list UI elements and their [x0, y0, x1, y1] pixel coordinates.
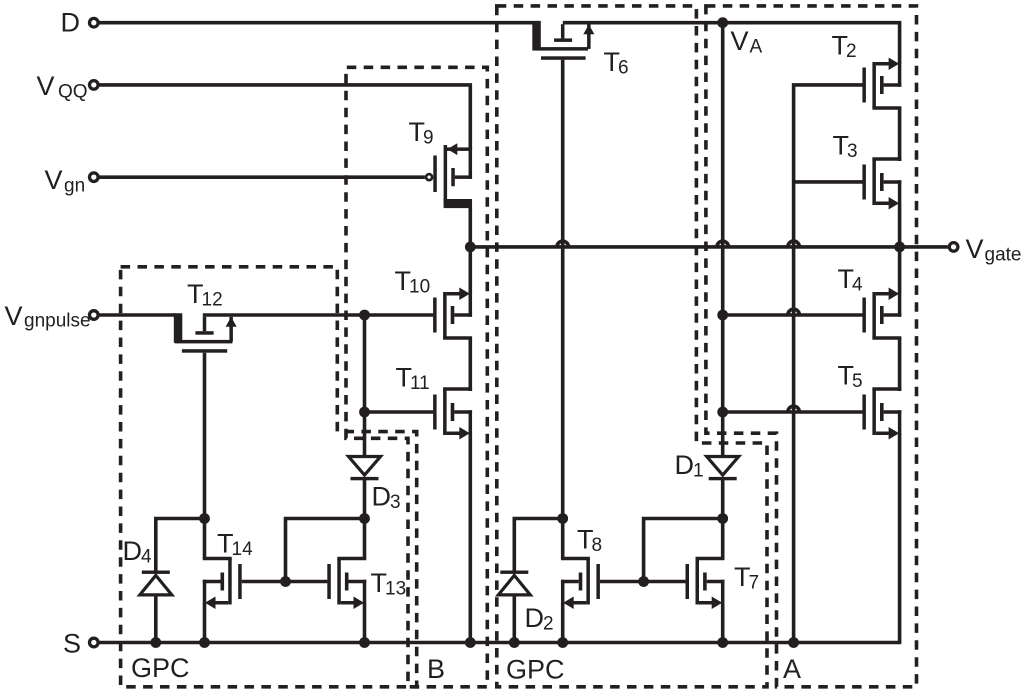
junction S line at T8 [557, 637, 568, 648]
wire Vgate line to T10 source [468, 247, 472, 294]
svg-text:A: A [783, 654, 801, 684]
wire T3 source to Vgate line [898, 204, 902, 248]
junction Vgate line at T3/T4 rail [894, 242, 905, 253]
diode D2 [498, 571, 553, 635]
wire T4 gate line [723, 313, 863, 317]
svg-text:2: 2 [543, 614, 554, 635]
svg-text:gn: gn [64, 176, 85, 197]
svg-text:V: V [45, 165, 63, 195]
svg-text:7: 7 [749, 573, 760, 594]
wire D2 anode to S line [512, 594, 516, 643]
wire VQQ line into T9 rail [99, 85, 470, 149]
transistor T2 [832, 31, 902, 110]
dashed box GPC left [121, 267, 417, 687]
svg-text:5: 5 [852, 371, 863, 392]
wire D3 cathode to T13 [363, 479, 367, 559]
svg-text:D: D [123, 536, 143, 566]
wire Vgate line to T4 source [898, 247, 902, 294]
svg-text:4: 4 [852, 275, 863, 296]
wire T7 T8 gate line [600, 580, 686, 584]
junction T5 gate line at VA [717, 407, 728, 418]
junction T4 gate line at VA [717, 310, 728, 321]
svg-text:D: D [61, 7, 81, 37]
wire D line right to T2 rail [563, 23, 900, 64]
svg-text:B: B [427, 654, 445, 684]
svg-text:D: D [525, 603, 545, 633]
transistor T13 [327, 557, 406, 609]
transistor T8 (mirrored) [561, 525, 602, 610]
transistor T14 (mirrored) [203, 529, 253, 610]
svg-text:14: 14 [232, 539, 254, 560]
svg-text:QQ: QQ [58, 82, 88, 103]
svg-text:11: 11 [410, 373, 430, 394]
svg-text:13: 13 [385, 579, 406, 600]
terminal VQQ [90, 81, 99, 90]
wire T6 gate down to T8 [561, 60, 565, 559]
transistor T5 [838, 361, 902, 440]
diode D3 [349, 457, 401, 514]
transistor T6 (horizontal, source thick lead on D line) [532, 21, 628, 79]
svg-text:D: D [372, 482, 392, 512]
junction S line at T11 [465, 637, 476, 648]
wire Vgate line [470, 245, 948, 249]
terminal S [90, 638, 99, 647]
wire VA D1 to T7 [721, 479, 725, 559]
junction T13 T14 gate node [280, 576, 291, 587]
svg-text:12: 12 [202, 290, 223, 311]
wire D2 branch [514, 519, 562, 572]
wire T13 T14 gate line [242, 580, 328, 584]
svg-text:gate: gate [985, 245, 1022, 266]
transistor T11 [396, 363, 473, 440]
wire T14 source to S line [203, 603, 207, 643]
crossover hop at gate net [788, 241, 800, 247]
dashed box B [346, 67, 487, 687]
svg-text:V: V [731, 26, 749, 56]
terminal Vgn [90, 173, 99, 182]
wire T11 gate branch [365, 410, 434, 414]
terminal D [90, 18, 99, 27]
junction S line at T7 [717, 637, 728, 648]
junction S line at gate net [788, 637, 799, 648]
junction T6 gate / D2 node [557, 513, 568, 524]
transistor T3 [833, 131, 902, 210]
wire T12 gate down to T14 [203, 353, 207, 559]
junction S line at D4 [150, 637, 161, 648]
wire T9 drain to Vgate line [468, 207, 472, 247]
svg-text:2: 2 [846, 41, 857, 62]
junction Vgate line at T9/T10 [465, 242, 476, 253]
junction node on D line at VA [717, 17, 728, 28]
wire D4 anode to S line [154, 594, 158, 643]
junction D1 cathode node [717, 513, 728, 524]
wire T5 source down to S line corner [898, 434, 902, 643]
junction T11 gate branch [359, 407, 370, 418]
crossover hop T4 gate line [788, 309, 800, 315]
junction S line at T14 [199, 637, 210, 648]
svg-text:3: 3 [390, 492, 401, 513]
svg-text:6: 6 [618, 58, 629, 79]
dashed box A [706, 6, 917, 687]
svg-text:GPC: GPC [506, 655, 565, 685]
wire Vgnpulse line [99, 313, 176, 317]
dashed box GPC right [497, 6, 767, 687]
terminal Vgnpulse [90, 311, 99, 320]
svg-text:GPC: GPC [131, 653, 190, 683]
wire node B vertical to D3 [363, 315, 367, 455]
transistor T4 [838, 264, 902, 340]
wire T8 source to S line [561, 603, 565, 643]
wire Vgn line [99, 175, 425, 179]
svg-text:3: 3 [847, 141, 858, 162]
crossover hop at VA [717, 241, 729, 247]
wire T2 drain to T3 drain [898, 107, 902, 161]
crossover hop at T6 gate [557, 241, 569, 247]
wire T7 T8 gate to D1 node [644, 519, 723, 582]
junction D3 cathode node [359, 513, 370, 524]
wire S line [100, 641, 902, 645]
junction S line at T13 [359, 637, 370, 648]
diode D4 [123, 536, 172, 595]
transistor T7 [686, 557, 760, 609]
svg-text:S: S [63, 629, 81, 659]
junction T7 T8 gate node [638, 576, 649, 587]
wire T5 gate line [723, 410, 863, 414]
svg-text:1: 1 [693, 461, 704, 482]
wire T7 source to S line [721, 603, 725, 643]
svg-text:V: V [966, 234, 984, 264]
wire T13 source to S line [363, 603, 367, 643]
wire D4 branch [156, 519, 205, 572]
wire T13 T14 gate to D3 node [286, 519, 365, 582]
svg-text:A: A [750, 37, 763, 58]
svg-text:8: 8 [592, 535, 603, 556]
wire T12 output to T10 gate [203, 313, 433, 317]
wire T10 drain to T11 drain [468, 338, 472, 392]
svg-text:9: 9 [423, 128, 434, 149]
wire node VA vertical upper [721, 23, 725, 455]
svg-text:D: D [675, 450, 695, 480]
junction T12 output node B [359, 310, 370, 321]
wire T4 drain to T5 drain [898, 338, 902, 392]
terminal Vgate [949, 243, 958, 252]
svg-text:V: V [37, 71, 55, 101]
junction S line at D2 [509, 637, 520, 648]
junction T12 gate / D4 node [199, 513, 210, 524]
wire T11 source to S line [468, 434, 472, 643]
transistor T10 [395, 266, 473, 340]
wire T3 gate branch [794, 180, 863, 184]
wire gate net vertical lower to S [792, 247, 796, 643]
wire D line left [99, 21, 541, 25]
wire T2 T3 gate net vertical [794, 85, 863, 247]
crossover hop T5 gate line [788, 406, 800, 412]
svg-text:gnpulse: gnpulse [24, 311, 91, 332]
transistor T12 (horizontal, source thick lead on Vgnpulse line) [174, 279, 237, 353]
svg-text:10: 10 [409, 277, 430, 298]
svg-text:V: V [5, 301, 23, 331]
diode D1 [675, 450, 739, 482]
transistor T9 (p-type with gate bubble, thick drain lead) [409, 117, 473, 208]
svg-text:4: 4 [141, 547, 152, 568]
